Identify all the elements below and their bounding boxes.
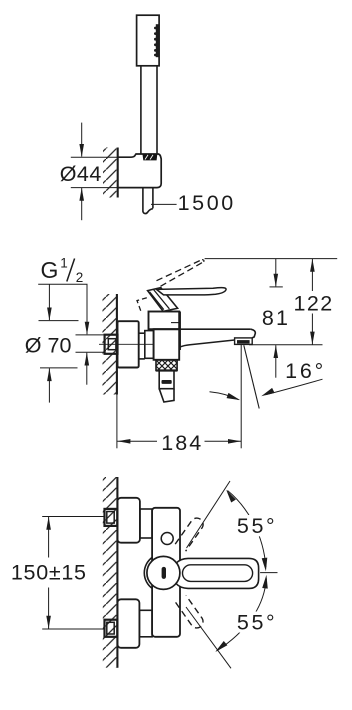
svg-text:81: 81 — [262, 306, 290, 330]
body edge bump around pivot — [144, 557, 152, 588]
55 lower arc arrowheads — [213, 641, 227, 654]
16 degree stream line — [244, 345, 259, 408]
wall line (top) — [117, 148, 119, 198]
wall hatch (bottom) — [103, 477, 118, 668]
lower fitting inner square — [107, 622, 114, 634]
lever boss — [148, 288, 178, 312]
Ø70 upper arrow — [48, 284, 50, 320]
body right edge through spout — [179, 312, 181, 351]
wall line (middle) — [116, 294, 118, 395]
svg-text:55°: 55° — [237, 514, 277, 538]
union nut — [145, 331, 154, 359]
spout tip — [251, 329, 256, 338]
150 bottom extension line — [42, 628, 104, 630]
55 lower arc — [217, 579, 267, 652]
upper escutcheon — [117, 498, 139, 543]
fitting bottom extension line — [76, 351, 105, 353]
spout outlet dark bar — [237, 340, 250, 343]
shower handle left edge — [140, 66, 142, 155]
diverter knob — [159, 371, 174, 389]
lever raised +55 (dashed capsule) — [175, 518, 203, 551]
16 degree right arc + arrow — [266, 379, 323, 395]
G1/2 fitting square — [105, 335, 118, 354]
G1/2 fitting inner detail — [108, 339, 116, 350]
81 upper arrow — [275, 259, 277, 287]
svg-text:G: G — [41, 257, 59, 283]
mixer body (front) — [152, 508, 180, 637]
svg-text:184: 184 — [161, 431, 203, 455]
lever raised tip (dashed) — [202, 260, 204, 262]
wall hatch (middle) — [103, 294, 117, 395]
55 lower extension line — [186, 607, 231, 668]
16 degree left arc + arrow — [210, 392, 239, 400]
lever raised boss (dashed) — [137, 298, 147, 311]
spout outlet box — [235, 338, 253, 345]
upper connector — [140, 509, 152, 538]
55 upper extension line — [187, 481, 231, 548]
184 dimension line left + arrow — [117, 440, 157, 442]
spout level extension line — [249, 344, 323, 346]
dimension G1/2 leader line — [38, 283, 87, 285]
spray nozzles bumps — [154, 27, 157, 57]
122 dimension line upper segment + arrow — [311, 259, 313, 291]
spout top edge — [154, 328, 251, 330]
vertical extension line from spout tip — [240, 345, 242, 449]
81 short extension line (solid lever top) — [270, 286, 283, 288]
upper fitting square — [105, 509, 118, 526]
hose length leader line — [151, 203, 177, 205]
svg-text:122: 122 — [294, 292, 334, 316]
dimension Ø44 upper arrow — [81, 123, 83, 157]
shower head spray bar — [156, 24, 160, 57]
shower handle right edge — [156, 66, 158, 155]
shower hose left edge — [143, 188, 153, 214]
150 dimension line lower + arrow — [48, 588, 50, 630]
svg-text:1: 1 — [60, 255, 68, 270]
shower holder outline — [118, 154, 161, 188]
holder cone nut (dark) — [143, 154, 158, 160]
G1/2 lower arrow — [86, 353, 88, 385]
svg-text:Ø44: Ø44 — [60, 162, 102, 186]
supply pipe top edge — [139, 332, 145, 334]
diverter slot (dark) — [162, 380, 172, 384]
pipe centerline — [99, 343, 154, 345]
lower connector — [139, 610, 152, 637]
extension line from raised lever top — [205, 258, 338, 260]
upper fitting inner square — [107, 512, 114, 524]
lower escutcheon — [117, 599, 139, 648]
lever boss inner lines — [150, 290, 170, 310]
lever raised position (dashed) upper line — [157, 260, 203, 281]
81 lower arrow — [275, 345, 277, 378]
lever pivot circle — [147, 556, 180, 589]
diverter lower part — [159, 389, 174, 402]
lever raised position (dashed) lower line — [161, 262, 204, 287]
dimension Ø44 bottom extension line — [71, 187, 118, 189]
knurled nut bottom edge — [156, 369, 177, 371]
fitting top extension line — [76, 334, 105, 336]
escutcheon flange — [118, 321, 139, 367]
Ø70 lower arrow — [48, 368, 50, 402]
svg-text:16°: 16° — [285, 359, 326, 383]
dimension Ø70 top extension line — [39, 320, 79, 322]
diverter button circle — [161, 533, 173, 545]
svg-text:55°: 55° — [237, 610, 277, 634]
G1/2 slash — [67, 259, 75, 282]
dimension G1/2 leader vertical + arrow — [86, 284, 88, 334]
pivot slot (dark) — [162, 567, 166, 579]
lever arm (front) — [176, 558, 259, 588]
svg-text:2: 2 — [76, 270, 84, 285]
aerator knurled nut — [156, 360, 177, 371]
shower head body — [137, 15, 160, 66]
mixer neck — [149, 312, 180, 330]
dimension Ø70 bottom extension line — [40, 367, 78, 369]
wall line (bottom) — [116, 477, 118, 668]
dimension Ø44 lower arrow — [81, 188, 83, 220]
svg-text:Ø 70: Ø 70 — [25, 333, 72, 357]
dimension G1/2 label — [41, 255, 84, 284]
lower fitting square — [105, 620, 118, 637]
184 dimension line right + arrow — [205, 440, 242, 442]
55 upper arc — [228, 491, 266, 568]
svg-text:1500: 1500 — [178, 191, 236, 215]
lever blade — [157, 288, 227, 295]
spout underside — [180, 340, 234, 347]
lever lowered -55 (dashed capsule) — [176, 595, 203, 628]
dimension Ø44 top extension line — [71, 156, 118, 158]
mixer main body — [154, 329, 180, 360]
55 upper arc arrowheads — [224, 488, 236, 502]
150 dimension line upper + arrow — [48, 517, 50, 558]
centerline at lever tip — [260, 572, 277, 574]
184 left extension line (wall) — [116, 395, 118, 449]
150 top extension line — [42, 516, 104, 518]
cartridge line in neck — [171, 322, 180, 324]
wall hatch (top) — [103, 148, 118, 198]
svg-text:150±15: 150±15 — [11, 560, 87, 584]
supply pipe bottom edge — [139, 358, 145, 360]
shower hose right edge — [152, 188, 154, 209]
122 dimension line lower segment + arrow — [311, 314, 313, 345]
lever inner face slot — [183, 565, 253, 582]
